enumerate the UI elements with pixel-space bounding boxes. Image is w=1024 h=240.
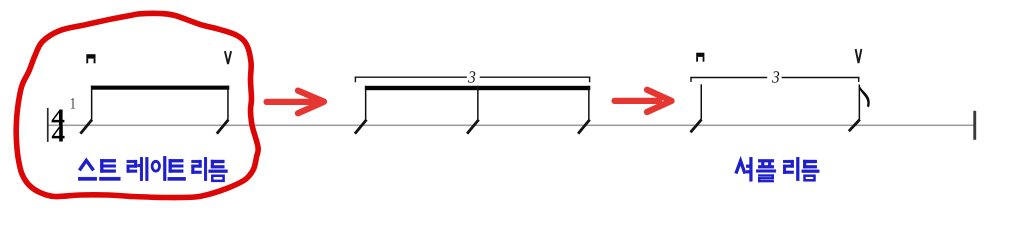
glyph 이 — [152, 156, 166, 180]
slash notehead shuffle note 2 — [849, 120, 860, 132]
upstroke V above measure 1 — [225, 51, 231, 64]
triplet bracket measure 2 — [355, 77, 591, 82]
glyph 듬 (1) — [209, 160, 228, 181]
stem shuffle note 2 — [859, 85, 861, 120]
stem shuffle note 1 — [701, 84, 703, 119]
stem note 1 measure 1 — [91, 86, 93, 120]
staff line — [48, 125, 976, 127]
time signature 4/4 — [52, 110, 65, 142]
korean label: 스트레이트 리듬 (straight rhythm) — [78, 156, 227, 181]
glyph 셔 — [736, 157, 753, 181]
barline left — [47, 108, 49, 142]
red arrow 2 — [615, 90, 672, 112]
korean label: 셔플 리듬 (shuffle rhythm) — [736, 157, 819, 182]
measure number 1 — [71, 98, 75, 109]
beam measure 1 — [91, 86, 229, 90]
triplet numeral 3 shuffle measure — [772, 71, 779, 82]
glyph 스 — [78, 160, 97, 180]
triplet bracket shuffle measure — [690, 77, 859, 82]
triplet numeral 3 measure 2 — [468, 71, 475, 82]
stem note 2 measure 1 — [227, 86, 229, 120]
slash notehead note 2 measure 1 — [217, 120, 229, 134]
red arrow 1 — [267, 91, 324, 114]
upstroke V above shuffle measure — [856, 49, 862, 63]
eighth note flag shuffle note 2 — [859, 85, 870, 108]
glyph 트 (1) — [99, 159, 120, 180]
barline final right — [973, 111, 976, 140]
stem triplet note 2 — [477, 86, 479, 120]
glyph 리 (2) — [783, 157, 799, 181]
glyph 트 (2) — [168, 159, 186, 180]
red circle around straight rhythm — [16, 13, 258, 197]
slash notehead note 1 measure 1 — [80, 120, 92, 134]
slash notehead triplet note 3 — [578, 120, 590, 134]
slash notehead triplet note 2 — [467, 120, 479, 134]
glyph 레 — [127, 157, 149, 181]
downstroke symbol above measure 1 — [86, 54, 95, 63]
glyph 리 (1) — [192, 157, 207, 181]
beam measure 2 triplet — [365, 86, 590, 90]
stem triplet note 3 — [588, 86, 590, 120]
downstroke symbol above shuffle measure — [696, 53, 704, 62]
stem triplet note 1 — [365, 86, 367, 120]
slash notehead triplet note 1 — [355, 120, 367, 134]
glyph 듬 (2) — [802, 160, 820, 180]
glyph 플 — [756, 159, 776, 182]
slash notehead shuffle note 1 — [691, 120, 702, 133]
